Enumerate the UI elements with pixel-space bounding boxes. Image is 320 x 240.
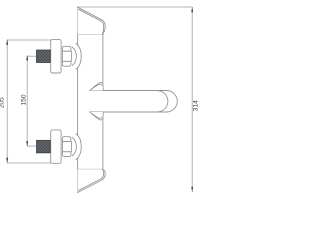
- svg-text:150: 150: [21, 94, 28, 105]
- svg-text:205: 205: [0, 97, 6, 108]
- svg-text:314: 314: [192, 100, 199, 111]
